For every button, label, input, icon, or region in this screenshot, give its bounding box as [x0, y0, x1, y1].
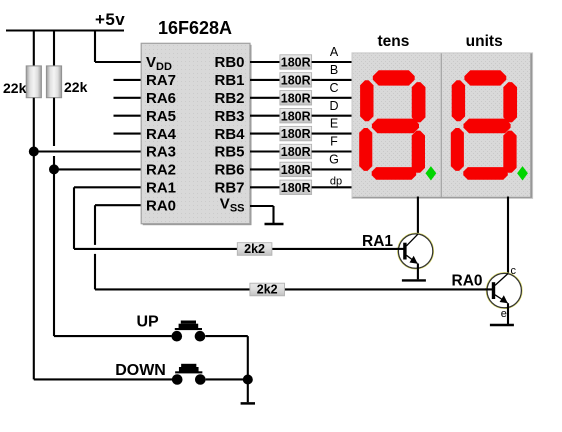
svg-text:A: A: [330, 45, 339, 59]
svg-text:16F628A: 16F628A: [158, 18, 232, 38]
svg-text:RB7: RB7: [214, 180, 244, 197]
svg-text:180R: 180R: [281, 56, 311, 70]
svg-text:RA6: RA6: [146, 90, 176, 107]
svg-text:RA3: RA3: [146, 144, 176, 161]
svg-text:RA1: RA1: [362, 233, 393, 250]
svg-text:D: D: [329, 99, 338, 113]
svg-text:180R: 180R: [281, 109, 311, 123]
svg-text:180R: 180R: [281, 127, 311, 141]
svg-text:RB0: RB0: [214, 54, 244, 71]
svg-text:2k2: 2k2: [244, 242, 265, 256]
svg-text:c: c: [511, 265, 517, 277]
svg-text:RB2: RB2: [214, 90, 244, 107]
svg-text:RA0: RA0: [452, 273, 483, 290]
svg-text:E: E: [330, 117, 338, 131]
svg-text:180R: 180R: [281, 145, 311, 159]
svg-text:DOWN: DOWN: [115, 362, 166, 379]
svg-text:RB6: RB6: [214, 162, 244, 179]
svg-text:B: B: [330, 63, 338, 77]
svg-text:RA5: RA5: [146, 108, 176, 125]
svg-text:RB3: RB3: [214, 108, 244, 125]
svg-text:e: e: [501, 308, 507, 320]
svg-text:RA0: RA0: [146, 197, 176, 214]
svg-text:dp: dp: [330, 176, 342, 188]
svg-text:RB1: RB1: [214, 72, 244, 89]
svg-text:180R: 180R: [281, 91, 311, 105]
svg-text:RA4: RA4: [146, 126, 177, 143]
svg-text:2k2: 2k2: [257, 283, 278, 297]
svg-text:F: F: [330, 135, 338, 149]
svg-text:RA1: RA1: [146, 180, 176, 197]
svg-text:RA2: RA2: [146, 162, 176, 179]
svg-text:RB5: RB5: [214, 144, 244, 161]
svg-text:180R: 180R: [281, 181, 311, 195]
svg-text:UP: UP: [137, 313, 160, 330]
svg-text:G: G: [329, 153, 339, 167]
svg-text:180R: 180R: [281, 163, 311, 177]
svg-text:units: units: [466, 33, 503, 50]
svg-text:180R: 180R: [281, 74, 311, 88]
svg-text:C: C: [329, 81, 338, 95]
svg-text:22k: 22k: [3, 80, 27, 96]
svg-text:+5v: +5v: [95, 10, 125, 29]
svg-text:RA7: RA7: [146, 72, 176, 89]
svg-text:RB4: RB4: [214, 126, 245, 143]
svg-text:22k: 22k: [64, 79, 88, 95]
svg-text:tens: tens: [377, 33, 409, 50]
